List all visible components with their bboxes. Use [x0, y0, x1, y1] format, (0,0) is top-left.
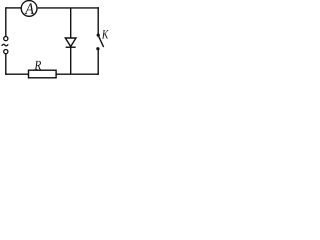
- switch K bottom contact dot: [96, 47, 99, 50]
- AC tilde symbol: [2, 44, 9, 46]
- switch K top contact dot: [97, 34, 100, 37]
- wire left upper: [5, 7, 7, 36]
- wire top-left segment: [6, 7, 21, 9]
- resistor R box: [29, 70, 57, 78]
- resistor label R: [34, 61, 41, 70]
- ammeter A1 circle: [21, 0, 37, 16]
- diode D1 cathode bar: [66, 46, 76, 48]
- AC source terminal 2: [4, 50, 8, 54]
- wire right lower: [97, 49, 99, 75]
- AC source terminal 1: [4, 37, 8, 41]
- diode branch wire lower: [70, 47, 72, 74]
- wire left lower: [5, 54, 7, 75]
- wire bottom-left segment: [5, 73, 29, 75]
- ammeter label A: [25, 3, 35, 14]
- switch K arm: [99, 36, 104, 47]
- diode branch wire upper: [70, 8, 72, 38]
- switch label K: [102, 30, 109, 38]
- wire top-right segment: [38, 7, 99, 9]
- wire right upper: [97, 7, 99, 34]
- wire bottom-middle segment: [56, 73, 99, 75]
- diode D1 triangle: [65, 38, 76, 47]
